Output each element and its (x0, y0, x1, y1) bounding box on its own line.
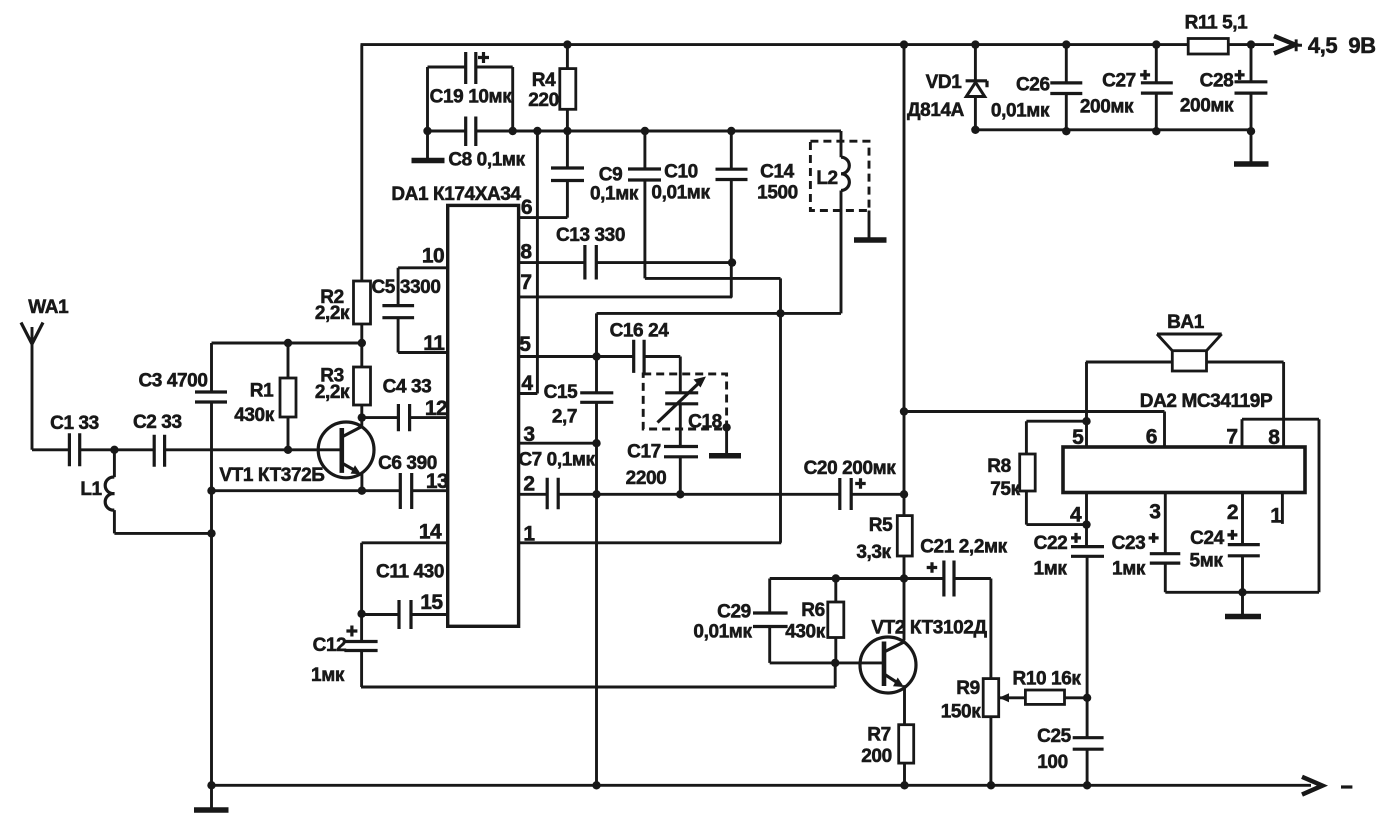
svg-text:C28: C28 (1200, 71, 1234, 92)
svg-text:DA1 К174ХА34: DA1 К174ХА34 (391, 184, 521, 205)
svg-text:C23: C23 (1112, 533, 1146, 554)
svg-text:R7: R7 (867, 725, 891, 746)
svg-text:8: 8 (1268, 426, 1280, 449)
svg-text:C24: C24 (1190, 528, 1224, 549)
svg-text:VD1: VD1 (926, 72, 963, 93)
svg-text:9В: 9В (1348, 33, 1375, 58)
svg-text:200мк: 200мк (1080, 97, 1134, 118)
svg-text:C15: C15 (544, 382, 578, 403)
svg-text:C8 0,1мк: C8 0,1мк (448, 150, 525, 171)
svg-text:R10 16к: R10 16к (1013, 669, 1082, 690)
svg-text:7: 7 (520, 271, 531, 294)
svg-text:0,1мк: 0,1мк (590, 184, 639, 205)
svg-text:L1: L1 (80, 479, 102, 500)
svg-text:WA1: WA1 (28, 297, 69, 318)
svg-text:R5: R5 (869, 515, 893, 536)
svg-text:10: 10 (422, 245, 444, 268)
svg-text:430к: 430к (785, 622, 826, 643)
svg-text:1500: 1500 (757, 183, 798, 204)
svg-text:C9: C9 (599, 165, 623, 186)
svg-text:3,3к: 3,3к (856, 542, 891, 563)
svg-text:Д814А: Д814А (907, 100, 965, 121)
svg-text:DA2 MC34119P: DA2 MC34119P (1140, 391, 1273, 412)
svg-text:2,7: 2,7 (552, 407, 577, 428)
svg-text:VT2 КТ3102Д: VT2 КТ3102Д (871, 618, 987, 639)
svg-text:R4: R4 (532, 70, 556, 91)
svg-text:4: 4 (521, 372, 533, 395)
svg-text:R8: R8 (987, 456, 1011, 477)
svg-text:C4 33: C4 33 (383, 377, 432, 398)
svg-text:75к: 75к (990, 479, 1020, 500)
svg-text:C12: C12 (313, 635, 347, 656)
svg-text:C18: C18 (688, 412, 722, 433)
svg-text:C26: C26 (1016, 75, 1050, 96)
svg-text:5: 5 (1072, 426, 1084, 449)
svg-text:11: 11 (423, 332, 445, 355)
svg-text:150к: 150к (941, 702, 982, 723)
svg-text:3: 3 (523, 423, 534, 446)
svg-text:C22: C22 (1034, 533, 1068, 554)
svg-text:C2 33: C2 33 (133, 412, 182, 433)
svg-text:C11 430: C11 430 (376, 562, 444, 583)
svg-text:C14: C14 (760, 162, 794, 183)
svg-text:C5 3300: C5 3300 (371, 277, 440, 298)
svg-text:200мк: 200мк (1180, 96, 1234, 117)
svg-text:L2: L2 (816, 168, 837, 189)
svg-text:5: 5 (519, 333, 531, 356)
svg-text:430к: 430к (234, 405, 275, 426)
svg-text:14: 14 (419, 521, 442, 544)
svg-text:15: 15 (420, 591, 443, 614)
svg-text:C1 33: C1 33 (50, 413, 99, 434)
svg-text:100: 100 (1037, 752, 1068, 773)
svg-text:2200: 2200 (626, 468, 667, 489)
svg-text:6: 6 (1146, 426, 1157, 449)
svg-text:R1: R1 (250, 381, 274, 402)
svg-text:VT1 КТ372Б: VT1 КТ372Б (219, 465, 324, 486)
svg-text:C10: C10 (664, 162, 698, 183)
svg-text:R11 5,1: R11 5,1 (1185, 13, 1249, 34)
svg-text:C19 10мк: C19 10мк (430, 87, 513, 108)
svg-text:12: 12 (425, 397, 447, 420)
svg-text:13: 13 (426, 470, 448, 493)
svg-text:C21 2,2мк: C21 2,2мк (920, 537, 1007, 558)
svg-text:2: 2 (1227, 501, 1238, 524)
svg-text:220: 220 (528, 90, 559, 111)
svg-text:+ 4,5: + 4,5 (1290, 33, 1338, 58)
svg-text:1: 1 (523, 523, 535, 546)
svg-text:0,01мк: 0,01мк (651, 183, 710, 204)
svg-text:3: 3 (1149, 501, 1160, 524)
svg-text:7: 7 (1226, 426, 1237, 449)
svg-text:2: 2 (523, 473, 534, 496)
svg-text:4: 4 (1070, 504, 1082, 527)
svg-text:0,01мк: 0,01мк (991, 101, 1050, 122)
svg-text:C3 4700: C3 4700 (138, 371, 207, 392)
svg-text:C27: C27 (1102, 71, 1136, 92)
svg-text:C17: C17 (627, 442, 661, 463)
svg-text:R6: R6 (801, 600, 825, 621)
svg-text:5мк: 5мк (1190, 551, 1224, 572)
svg-text:2,2к: 2,2к (315, 382, 350, 403)
svg-text:1мк: 1мк (1112, 559, 1146, 580)
svg-text:C13 330: C13 330 (556, 225, 625, 246)
svg-text:200: 200 (861, 746, 892, 767)
svg-text:6: 6 (521, 196, 532, 219)
svg-text:2,2к: 2,2к (315, 303, 350, 324)
svg-text:C16 24: C16 24 (610, 321, 670, 342)
svg-text:C20 200мк: C20 200мк (804, 458, 897, 479)
svg-text:C7 0,1мк: C7 0,1мк (518, 450, 595, 471)
svg-text:0,01мк: 0,01мк (693, 622, 752, 643)
svg-text:R9: R9 (956, 678, 980, 699)
svg-text:1мк: 1мк (1034, 559, 1068, 580)
svg-text:1: 1 (1270, 505, 1282, 528)
svg-text:C25: C25 (1037, 726, 1071, 747)
svg-text:C29: C29 (717, 602, 751, 623)
svg-text:BA1: BA1 (1167, 312, 1205, 333)
svg-text:8: 8 (520, 241, 532, 264)
svg-text:1мк: 1мк (311, 665, 345, 686)
